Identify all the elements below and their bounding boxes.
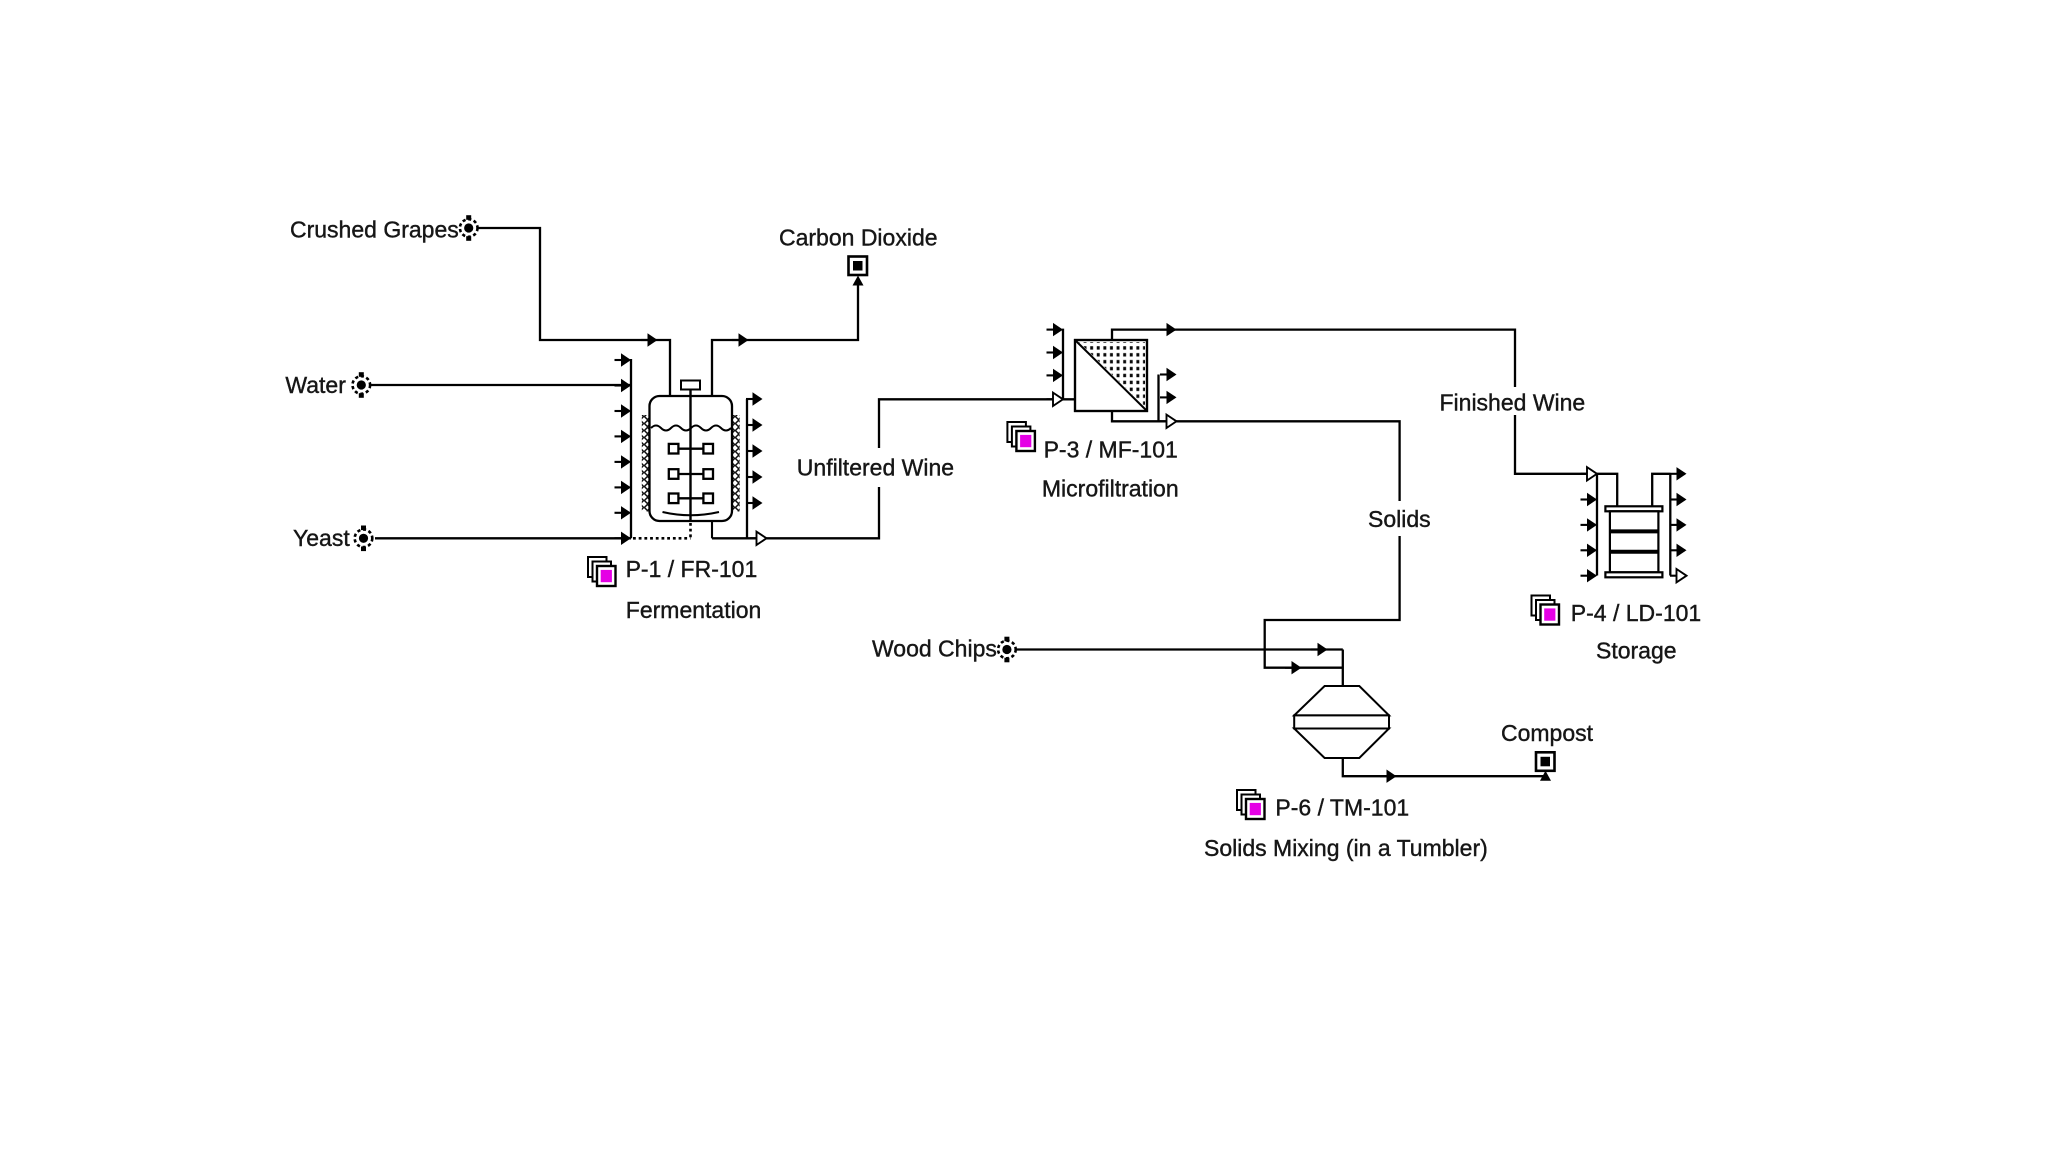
- svg-text:Solids: Solids: [1368, 506, 1431, 532]
- svg-text:Compost: Compost: [1501, 720, 1594, 746]
- svg-text:Microfiltration: Microfiltration: [1042, 476, 1179, 502]
- svg-text:Storage: Storage: [1596, 638, 1677, 664]
- svg-text:P-3 / MF-101: P-3 / MF-101: [1044, 437, 1178, 463]
- svg-text:Wood Chips: Wood Chips: [872, 636, 997, 662]
- svg-text:Water: Water: [285, 372, 346, 398]
- svg-text:Fermentation: Fermentation: [626, 597, 762, 623]
- svg-text:Crushed Grapes: Crushed Grapes: [290, 216, 459, 242]
- svg-text:P-1 / FR-101: P-1 / FR-101: [626, 556, 758, 582]
- svg-text:Unfiltered Wine: Unfiltered Wine: [797, 454, 954, 480]
- svg-text:Solids Mixing (in a Tumbler): Solids Mixing (in a Tumbler): [1204, 835, 1488, 861]
- svg-text:P-4 / LD-101: P-4 / LD-101: [1571, 600, 1701, 626]
- svg-text:P-6 / TM-101: P-6 / TM-101: [1275, 795, 1409, 821]
- svg-text:Carbon Dioxide: Carbon Dioxide: [779, 224, 938, 250]
- svg-text:Finished Wine: Finished Wine: [1440, 390, 1586, 416]
- svg-text:Yeast: Yeast: [293, 525, 350, 551]
